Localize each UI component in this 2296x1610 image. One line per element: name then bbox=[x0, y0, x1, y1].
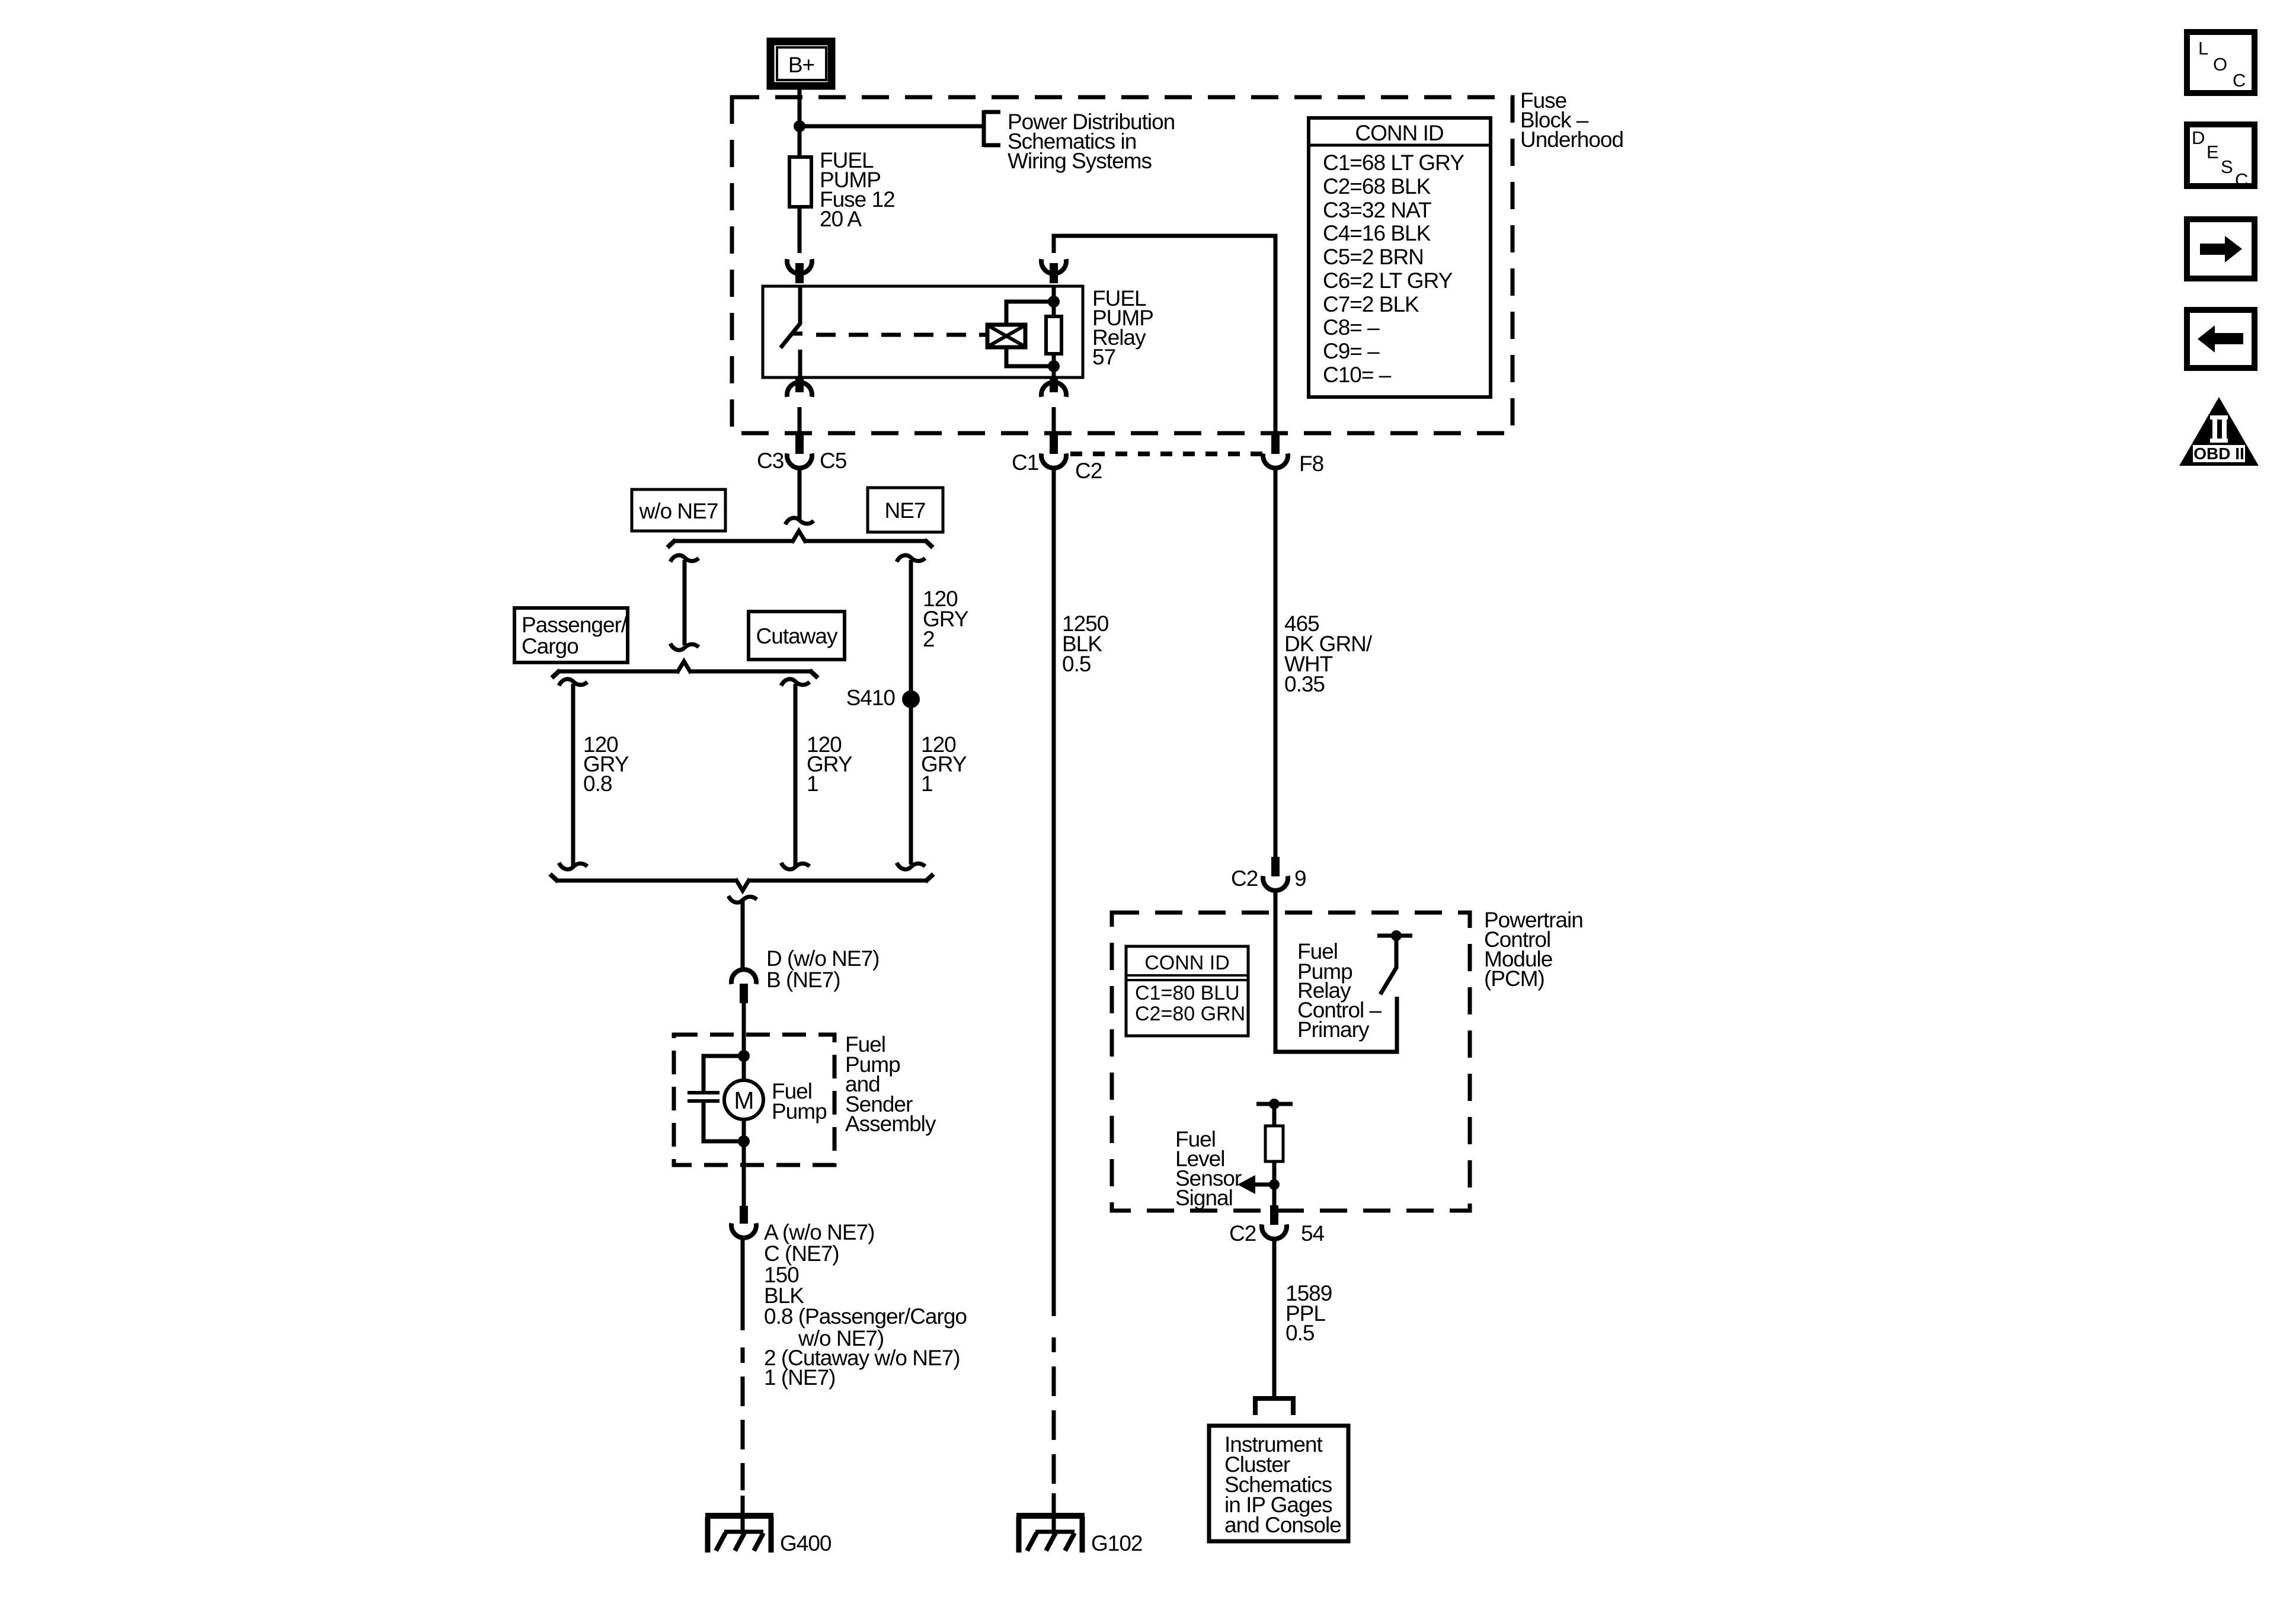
svg-text:0.5: 0.5 bbox=[1062, 652, 1091, 676]
svg-text:1: 1 bbox=[807, 772, 818, 796]
svg-text:C4=16 BLK: C4=16 BLK bbox=[1323, 221, 1431, 245]
svg-text:C2: C2 bbox=[1229, 1221, 1256, 1246]
svg-text:C6=2 LT GRY: C6=2 LT GRY bbox=[1323, 268, 1453, 293]
svg-text:C: C bbox=[2235, 169, 2248, 190]
svg-text:M: M bbox=[734, 1087, 753, 1114]
svg-text:C5: C5 bbox=[820, 449, 847, 473]
svg-text:C10= –: C10= – bbox=[1323, 363, 1392, 387]
svg-text:54: 54 bbox=[1301, 1221, 1325, 1246]
svg-text:C1: C1 bbox=[1012, 450, 1038, 475]
svg-text:S410: S410 bbox=[846, 686, 896, 710]
svg-text:57: 57 bbox=[1092, 345, 1115, 369]
svg-text:CONN ID: CONN ID bbox=[1144, 952, 1230, 974]
svg-text:Primary: Primary bbox=[1297, 1017, 1370, 1042]
svg-text:2: 2 bbox=[923, 627, 935, 651]
svg-text:B (NE7): B (NE7) bbox=[766, 968, 840, 992]
svg-text:0.8: 0.8 bbox=[583, 772, 612, 796]
svg-text:C3=32 NAT: C3=32 NAT bbox=[1323, 198, 1431, 222]
svg-text:D (w/o NE7): D (w/o NE7) bbox=[766, 946, 879, 971]
svg-text:B+: B+ bbox=[788, 53, 814, 77]
svg-text:C2: C2 bbox=[1231, 866, 1258, 891]
svg-text:C: C bbox=[2233, 70, 2246, 91]
svg-text:NE7: NE7 bbox=[885, 498, 926, 523]
svg-text:Cargo: Cargo bbox=[522, 634, 578, 658]
svg-text:S: S bbox=[2221, 156, 2233, 177]
svg-text:E: E bbox=[2207, 142, 2219, 162]
svg-text:C3: C3 bbox=[757, 449, 784, 473]
svg-text:Assembly: Assembly bbox=[845, 1112, 936, 1136]
svg-text:0.5: 0.5 bbox=[1285, 1321, 1315, 1345]
svg-text:C1=80 BLU: C1=80 BLU bbox=[1135, 982, 1240, 1004]
svg-text:CONN ID: CONN ID bbox=[1355, 121, 1443, 145]
svg-text:L: L bbox=[2198, 38, 2208, 59]
svg-text:Underhood: Underhood bbox=[1520, 127, 1623, 152]
svg-text:w/o NE7: w/o NE7 bbox=[639, 499, 718, 523]
svg-text:D: D bbox=[2192, 127, 2205, 148]
svg-text:C2=80 GRN: C2=80 GRN bbox=[1135, 1003, 1245, 1025]
svg-text:20 A: 20 A bbox=[820, 207, 862, 231]
svg-text:Pump: Pump bbox=[772, 1099, 827, 1124]
svg-text:A (w/o NE7): A (w/o NE7) bbox=[764, 1220, 874, 1244]
svg-text:OBD II: OBD II bbox=[2193, 444, 2244, 463]
svg-text:C7=2 BLK: C7=2 BLK bbox=[1323, 292, 1419, 316]
svg-text:0.8 (Passenger/Cargo: 0.8 (Passenger/Cargo bbox=[764, 1304, 967, 1329]
svg-text:1 (NE7): 1 (NE7) bbox=[764, 1365, 835, 1390]
svg-text:1: 1 bbox=[921, 772, 933, 796]
svg-text:Passenger/: Passenger/ bbox=[522, 613, 628, 637]
svg-text:C2=68 BLK: C2=68 BLK bbox=[1323, 174, 1431, 199]
svg-text:G102: G102 bbox=[1091, 1531, 1143, 1555]
svg-text:Cutaway: Cutaway bbox=[756, 624, 838, 648]
svg-text:9: 9 bbox=[1294, 866, 1306, 891]
svg-text:C1=68 LT GRY: C1=68 LT GRY bbox=[1323, 151, 1464, 175]
svg-text:G400: G400 bbox=[780, 1531, 832, 1555]
svg-text:Signal: Signal bbox=[1175, 1186, 1233, 1210]
svg-text:Wiring Systems: Wiring Systems bbox=[1008, 149, 1152, 173]
svg-text:C5=2 BRN: C5=2 BRN bbox=[1323, 245, 1424, 269]
svg-text:F8: F8 bbox=[1299, 452, 1323, 476]
svg-text:and Console: and Console bbox=[1224, 1513, 1341, 1537]
svg-text:C8= –: C8= – bbox=[1323, 315, 1380, 340]
svg-text:C9= –: C9= – bbox=[1323, 339, 1380, 363]
svg-text:C2: C2 bbox=[1075, 459, 1102, 483]
svg-text:(PCM): (PCM) bbox=[1484, 966, 1544, 991]
svg-text:0.35: 0.35 bbox=[1284, 672, 1325, 696]
svg-text:O: O bbox=[2213, 54, 2227, 75]
svg-text:C (NE7): C (NE7) bbox=[764, 1241, 839, 1266]
